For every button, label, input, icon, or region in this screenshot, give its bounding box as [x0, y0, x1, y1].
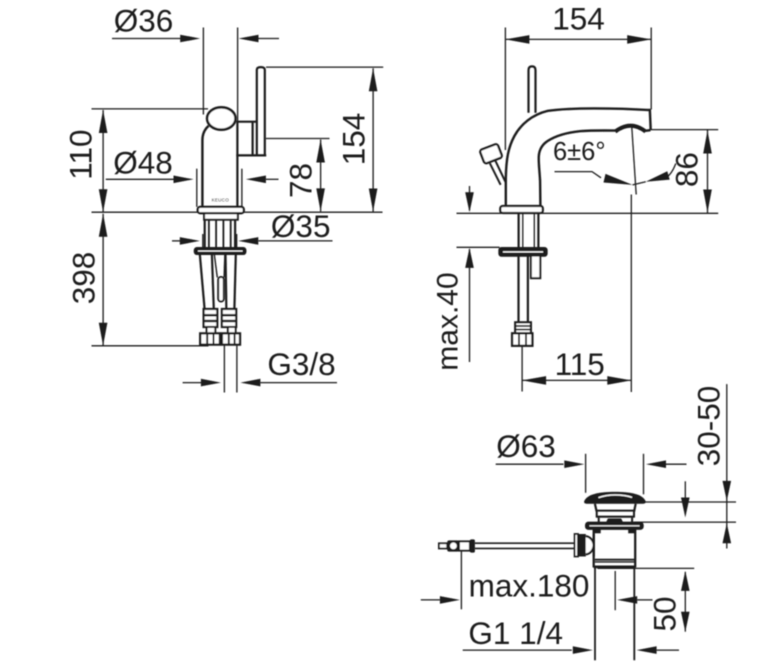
svg-text:KEUCO: KEUCO — [212, 198, 230, 203]
svg-text:50: 50 — [647, 596, 683, 631]
svg-text:78: 78 — [283, 163, 319, 198]
svg-text:86: 86 — [669, 152, 705, 187]
svg-text:Ø48: Ø48 — [113, 145, 173, 181]
svg-text:max.180: max.180 — [469, 568, 590, 604]
svg-text:30-50: 30-50 — [691, 386, 727, 467]
svg-text:G1 1/4: G1 1/4 — [468, 615, 563, 651]
svg-text:398: 398 — [66, 252, 102, 305]
svg-text:110: 110 — [63, 129, 99, 179]
svg-text:Ø63: Ø63 — [496, 428, 556, 464]
svg-text:154: 154 — [552, 1, 605, 37]
svg-text:6±6°: 6±6° — [553, 138, 606, 166]
svg-text:max.40: max.40 — [432, 272, 465, 370]
svg-text:Ø36: Ø36 — [114, 2, 174, 38]
svg-text:G3/8: G3/8 — [267, 346, 335, 382]
svg-text:154: 154 — [336, 113, 372, 166]
svg-text:115: 115 — [555, 346, 605, 382]
svg-text:Ø35: Ø35 — [271, 208, 331, 244]
